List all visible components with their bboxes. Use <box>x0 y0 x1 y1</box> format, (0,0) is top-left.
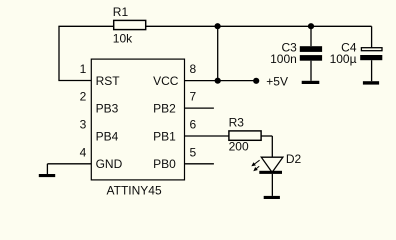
svg-text:5: 5 <box>190 145 197 159</box>
wire: C3 bottom lead <box>310 61 312 81</box>
svg-text:10k: 10k <box>113 31 133 45</box>
svg-text:PB0: PB0 <box>153 157 176 171</box>
svg-text:R1: R1 <box>113 5 129 19</box>
wire: top rail R1 to junction A <box>146 25 218 27</box>
+5V terminal dot <box>253 78 259 84</box>
ground (LED) <box>264 196 280 199</box>
wire: pin 8 VCC to +5V <box>185 80 256 82</box>
svg-text:100n: 100n <box>270 52 297 66</box>
junction dot B (top rail at C3) <box>308 23 314 29</box>
LED arrow 2 <box>253 166 259 171</box>
wire: R3 right to LED corner <box>262 135 273 137</box>
svg-text:4: 4 <box>80 145 87 159</box>
svg-text:3: 3 <box>80 118 87 132</box>
svg-text:RST: RST <box>96 74 121 88</box>
svg-text:100µ: 100µ <box>330 52 357 66</box>
svg-text:8: 8 <box>190 62 197 76</box>
wire: LED cathode to ground <box>271 174 273 196</box>
wire: pin 7 stub <box>185 107 214 109</box>
svg-text:200: 200 <box>229 139 249 153</box>
capacitor C3 bottom plate <box>300 55 322 61</box>
wire: pin 4 GND to ground <box>47 163 91 165</box>
svg-text:VCC: VCC <box>153 74 179 88</box>
wire: pin 1 RST horizontal <box>58 80 91 82</box>
svg-text:7: 7 <box>190 90 197 104</box>
wire: C4 bottom lead <box>371 60 373 81</box>
svg-text:PB2: PB2 <box>153 102 176 116</box>
svg-text:R3: R3 <box>229 115 245 129</box>
wire: top rail junction B to C4 corner <box>311 25 372 27</box>
capacitor C4 bottom plate <box>360 55 382 60</box>
svg-text:ATTINY45: ATTINY45 <box>107 183 162 197</box>
wire: C4 vertical drop from top rail <box>371 26 373 47</box>
resistor R1 <box>114 20 146 29</box>
LED D2 cathode bar <box>259 171 282 174</box>
LED arrow 1 <box>251 160 259 166</box>
resistor R3 <box>229 131 261 140</box>
svg-text:PB3: PB3 <box>96 102 119 116</box>
LED D2 triangle <box>261 157 283 172</box>
capacitor C3 top plate <box>300 46 322 52</box>
svg-text:PB1: PB1 <box>153 129 176 143</box>
svg-text:D2: D2 <box>286 152 302 166</box>
wire: ground stub vertical <box>46 164 48 174</box>
wire: pin 5 stub <box>185 163 214 165</box>
svg-text:PB4: PB4 <box>96 129 119 143</box>
wire: vertical down to LED anode <box>271 136 273 158</box>
wire: top rail junction A to junction B (C3) <box>218 25 311 27</box>
svg-text:6: 6 <box>190 118 197 132</box>
wire: C3 top lead <box>310 26 312 46</box>
svg-text:1: 1 <box>80 62 87 76</box>
ground (IC GND) <box>39 174 55 177</box>
wire: pin 6 to R3 <box>185 135 229 137</box>
capacitor C4 top plate (hollow) <box>361 48 382 51</box>
IC U1 ATTINY45 box <box>91 59 184 180</box>
junction dot A (top rail) <box>215 23 221 29</box>
junction dot on pin 8 wire <box>215 78 221 84</box>
svg-text:2: 2 <box>80 90 87 104</box>
svg-text:+5V: +5V <box>266 75 288 89</box>
ground (C3) <box>302 81 320 84</box>
wire: +5V rail vertical (junction A down to pin 8 wire) <box>217 26 219 80</box>
wire: top rail from R1-left corner to R1 <box>58 25 113 27</box>
wire: vertical from top rail down to pin 1 <box>58 26 60 80</box>
ground (C4) <box>363 81 379 84</box>
svg-text:GND: GND <box>96 157 123 171</box>
